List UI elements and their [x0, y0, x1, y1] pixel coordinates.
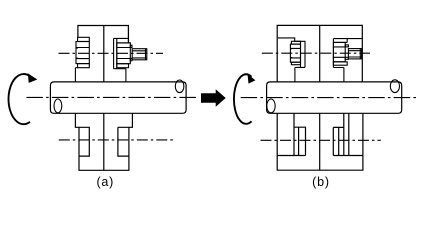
- bolt axis centerline top (a): [59, 52, 164, 54]
- rotation arrow (a): [9, 73, 38, 124]
- coupling hub bottom outline (b): [277, 113, 363, 170]
- shaft end ellipse right (b): [390, 80, 399, 93]
- svg-text:(a): (a): [96, 175, 114, 189]
- big transition arrow: [201, 89, 226, 106]
- shaft cylinder (b): [267, 82, 402, 113]
- shaft end ellipse left (a): [54, 99, 62, 113]
- shaft centerline (b): [241, 97, 417, 99]
- label (b): [312, 175, 330, 189]
- rotation arrow (b): [234, 74, 255, 124]
- shaft cylinder (a): [50, 82, 186, 113]
- nut N1 on left flange (a): [75, 37, 89, 82]
- shaft end ellipse left (b): [267, 99, 275, 113]
- label (a): [96, 175, 114, 189]
- bolt axis centerline bottom (b): [261, 139, 381, 141]
- bolt axis centerline top (b): [262, 52, 370, 54]
- shaft centerline (a): [26, 96, 196, 98]
- svg-text:(b): (b): [312, 175, 330, 189]
- bolt axis centerline bottom (a): [59, 139, 175, 141]
- coupling hub bottom outline (a): [75, 113, 132, 170]
- left recess pocket (b): [278, 38, 305, 82]
- coupling hub top outline (a): [78, 26, 128, 82]
- coupling hub top outline (b): [277, 25, 362, 82]
- bolt B2 with head and threaded shank in right pocket (b): [333, 39, 362, 82]
- bolt B1 with head and threaded shank on right flange (a): [114, 26, 147, 82]
- shaft end ellipse right (a): [175, 80, 184, 93]
- nut N2 in left pocket (b): [290, 41, 300, 64]
